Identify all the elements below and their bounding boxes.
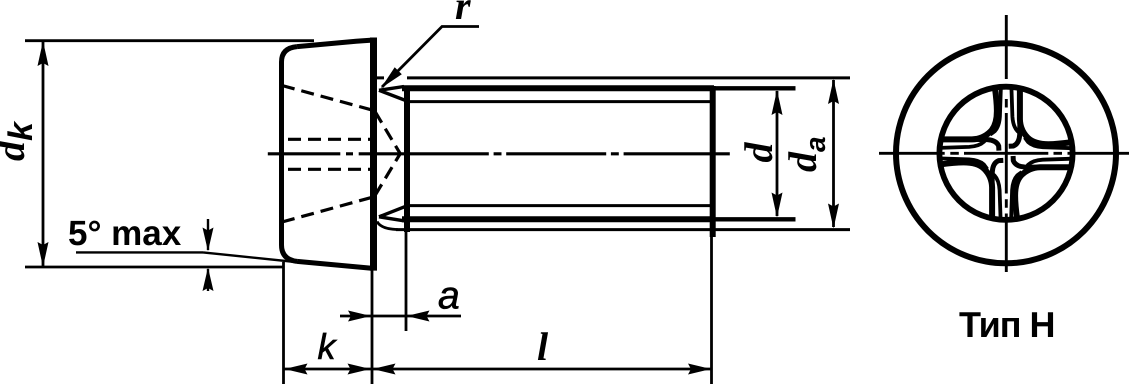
thread runout bottom xyxy=(379,206,407,221)
svg-text:l: l xyxy=(537,324,549,369)
a extension right xyxy=(405,232,408,331)
fillet under head bottom xyxy=(377,222,398,230)
k arrow right xyxy=(348,364,371,375)
svg-text:5° max: 5° max xyxy=(68,214,182,253)
5 deg sloped line xyxy=(203,252,310,263)
svg-text:r: r xyxy=(455,0,471,28)
d arrow bottom xyxy=(772,193,783,218)
d_k arrow bottom xyxy=(38,242,49,267)
a arrow left (pointing right) xyxy=(348,311,371,322)
l extension right xyxy=(710,237,713,384)
thread runout top xyxy=(379,87,407,102)
recess hidden lines: upper wing xyxy=(282,86,375,111)
recess hidden lines: upper tip cone xyxy=(375,112,400,154)
k/l extension middle (bearing face) xyxy=(371,270,374,384)
l arrow right xyxy=(688,364,711,375)
leader arrowhead r xyxy=(381,67,402,88)
shank start edge xyxy=(404,88,410,232)
cross recess quadrant 1 xyxy=(942,87,1022,151)
l arrow left xyxy=(373,364,396,375)
d dimension line xyxy=(776,91,779,216)
d_a arrow top xyxy=(828,79,839,104)
recess hidden lines: slot bottom edge xyxy=(288,168,371,171)
svg-text:Тип Н: Тип Н xyxy=(959,304,1055,345)
cross recess quadrant 4 xyxy=(940,137,1004,217)
d_a dimension line xyxy=(832,80,835,227)
circle view vertical centerline xyxy=(1005,15,1008,272)
l dimension line xyxy=(372,368,711,371)
svg-text:k: k xyxy=(318,326,338,367)
a arrow right (pointing left) xyxy=(407,311,430,322)
head outer circle xyxy=(896,43,1116,263)
thread minor line top xyxy=(407,100,712,103)
d_a arrow bottom xyxy=(828,204,839,229)
svg-text:dk: dk xyxy=(0,120,40,161)
d arrow top xyxy=(772,90,783,115)
k dimension line xyxy=(284,368,371,371)
d_k extension bottom xyxy=(25,266,284,269)
a dimension line xyxy=(340,315,461,318)
shank end edge xyxy=(710,86,716,237)
thread major line top (extended right for d) xyxy=(402,85,714,91)
thread major line bottom (extended right for d) xyxy=(402,216,714,222)
svg-text:d: d xyxy=(736,142,781,163)
screw head outline xyxy=(297,40,374,47)
circle view horizontal centerline xyxy=(879,152,1129,155)
d_k extension top xyxy=(25,39,314,42)
head bearing face xyxy=(370,38,377,271)
svg-text:a: a xyxy=(438,275,460,318)
axis centerline of side view xyxy=(268,152,730,155)
d_k arrow top xyxy=(38,41,49,66)
5 deg arrow lower xyxy=(207,269,209,291)
svg-text:da: da xyxy=(780,136,831,172)
recess inner circle xyxy=(939,87,1072,220)
recess hidden lines: lower tip cone xyxy=(375,154,400,196)
recess hidden lines: lower wing xyxy=(282,197,375,223)
5 deg arrow upper xyxy=(207,219,209,250)
k extension left xyxy=(282,262,285,384)
d_a line bottom xyxy=(396,228,850,231)
5 deg reference line xyxy=(76,251,203,253)
cross recess quadrant 3 xyxy=(990,156,1070,220)
d_a line top xyxy=(377,76,850,79)
thread minor line bottom xyxy=(407,204,712,207)
leader for r xyxy=(382,27,479,88)
d_k dimension line xyxy=(42,41,45,267)
k arrow left xyxy=(285,364,308,375)
cross recess quadrant 2 xyxy=(1009,89,1073,169)
recess hidden lines: slot top edge xyxy=(288,138,371,141)
